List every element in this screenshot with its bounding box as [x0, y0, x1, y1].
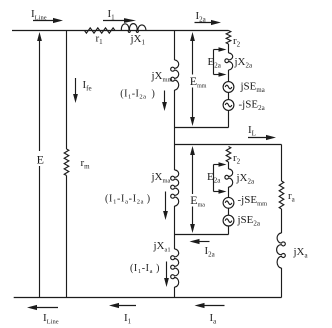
wire right branch lower — [281, 268, 283, 298]
label rm — [81, 157, 91, 171]
label jX2a upper — [234, 56, 254, 70]
voltage E2a bracket upper — [214, 47, 227, 76]
label Ema — [189, 193, 205, 209]
svg-text:IL: IL — [248, 124, 256, 138]
svg-text:E: E — [37, 153, 44, 167]
label I1 bottom — [124, 312, 132, 326]
svg-text:jXmm: jXmm — [151, 70, 173, 84]
wire right branch mid — [281, 209, 283, 233]
label Ia bottom — [210, 312, 218, 326]
svg-text:r2: r2 — [233, 35, 241, 49]
wire lower branch seg1 — [228, 162, 230, 169]
wire upper branch seg2 — [228, 70, 230, 82]
label r2 lower — [233, 152, 241, 166]
resistor r1 — [85, 28, 116, 33]
inductor jX1 — [121, 24, 146, 33]
label I1 top — [108, 8, 116, 22]
label -jSEmm — [238, 194, 268, 208]
label jX1 — [130, 33, 146, 47]
label jX2a lower — [236, 172, 256, 186]
current Ife arrow — [73, 78, 78, 103]
wire node C (I_2a return) — [175, 234, 229, 236]
label jXa1 — [153, 240, 171, 254]
wire top bus — [12, 30, 229, 32]
resistor rm — [64, 149, 69, 176]
svg-text:I2a: I2a — [196, 10, 207, 24]
label jXma — [151, 171, 171, 185]
voltage Ema arrows — [190, 146, 195, 233]
inductor jXa — [277, 233, 286, 268]
current ILine arrow top — [33, 18, 63, 23]
label ra — [288, 190, 296, 204]
svg-text:Ife: Ife — [83, 79, 92, 93]
label I2a top — [196, 10, 207, 24]
svg-text:jXa1: jXa1 — [153, 240, 171, 254]
current (I1-I2a) arrow — [162, 91, 167, 112]
label IL — [248, 124, 256, 138]
svg-text:E2a: E2a — [207, 171, 221, 185]
source -jSE2a — [223, 100, 234, 111]
svg-text:I2a: I2a — [205, 245, 216, 259]
resistor r2 lower — [226, 147, 231, 163]
wire center segment 2 — [174, 90, 176, 170]
wire center segment 3 — [174, 206, 176, 249]
label (I1-Ia-I2a) — [105, 194, 151, 206]
inductor jX2a lower — [225, 169, 233, 187]
svg-text:rm: rm — [81, 157, 91, 171]
label (I1-Ia) — [130, 263, 160, 275]
wire upper branch seg1 — [228, 44, 230, 53]
svg-text:jX1: jX1 — [130, 33, 146, 47]
node E voltage arrow — [37, 32, 42, 298]
svg-text:Ia: Ia — [210, 312, 218, 326]
svg-text:r1: r1 — [96, 33, 104, 47]
label E2a upper — [208, 56, 222, 70]
current (I1-Ia-I2a) arrow — [163, 192, 168, 221]
source jSEma — [223, 82, 234, 93]
wire rm branch upper — [66, 31, 68, 150]
wire center top segment — [174, 31, 176, 61]
label r1 — [96, 33, 104, 47]
svg-text:I1: I1 — [108, 8, 116, 22]
wire bottom bus — [14, 297, 282, 299]
svg-text:jXma: jXma — [151, 171, 171, 185]
wire upper branch seg3 — [228, 92, 230, 99]
svg-text:(I1-Ia-I2a): (I1-Ia-I2a) — [105, 194, 151, 206]
inductor jXma — [171, 170, 179, 206]
svg-text:ILine: ILine — [31, 8, 47, 22]
current (I1-Ia) arrow — [164, 262, 169, 288]
label jXmm — [151, 70, 173, 84]
inductor jXmm — [171, 60, 179, 90]
label -jSE2a — [239, 99, 266, 113]
wire lower branch seg4 — [228, 226, 230, 235]
svg-text:(I1-Ia): (I1-Ia) — [130, 263, 160, 275]
inductor jX2a upper — [225, 53, 233, 70]
resistor ra — [279, 181, 284, 209]
label jSEma — [240, 81, 265, 95]
wire lower branch seg2 — [228, 187, 230, 197]
current IL arrow — [248, 135, 276, 140]
svg-text:ra: ra — [288, 190, 296, 204]
inductor jXa1 — [171, 249, 179, 287]
label jSE2a — [237, 214, 261, 228]
current I2a arrow mid — [190, 239, 210, 244]
wire lower branch seg3 — [228, 208, 230, 215]
current Ia arrow bottom — [195, 303, 225, 308]
voltage Emm arrows — [190, 32, 195, 126]
svg-text:I1: I1 — [124, 312, 132, 326]
wire node A (upper branch return) — [175, 127, 229, 129]
wire right branch upper — [281, 145, 283, 182]
current I1 arrow top — [103, 18, 136, 23]
svg-text:-jSE2a: -jSE2a — [239, 99, 266, 113]
resistor r2 upper — [226, 31, 231, 45]
wire node B (I_L bus) — [175, 144, 282, 146]
svg-text:jSEma: jSEma — [240, 81, 265, 95]
svg-text:(I1-I2a): (I1-I2a) — [120, 89, 155, 101]
svg-text:jSE2a: jSE2a — [237, 214, 261, 228]
svg-text:jX2a: jX2a — [234, 56, 254, 70]
source jSE2a — [223, 215, 234, 226]
wire rm branch lower — [66, 176, 68, 298]
current I1 arrow bottom — [109, 303, 136, 308]
source -jSEmm — [223, 197, 234, 208]
voltage E2a bracket lower — [214, 162, 227, 193]
label E2a lower — [207, 171, 221, 185]
svg-text:ILine: ILine — [43, 312, 59, 326]
label Emm — [188, 74, 207, 90]
label I2a mid — [205, 245, 216, 259]
label ILine bottom — [43, 312, 59, 326]
label jXa — [293, 246, 309, 260]
svg-text:E2a: E2a — [208, 56, 222, 70]
svg-text:r2: r2 — [233, 152, 241, 166]
current ILine arrow bottom — [27, 305, 58, 310]
wire upper branch seg4 — [228, 110, 230, 127]
wire center bottom segment — [174, 287, 176, 298]
svg-text:jXa: jXa — [293, 246, 309, 260]
label ILine top — [31, 8, 47, 22]
label Ife — [83, 79, 92, 93]
current I2a arrow top — [195, 20, 222, 25]
label E — [34, 151, 45, 167]
svg-text:jX2a: jX2a — [236, 172, 256, 186]
label (I1-I2a) — [120, 89, 155, 101]
label r2 upper — [233, 35, 241, 49]
svg-text:-jSEmm: -jSEmm — [238, 194, 268, 208]
